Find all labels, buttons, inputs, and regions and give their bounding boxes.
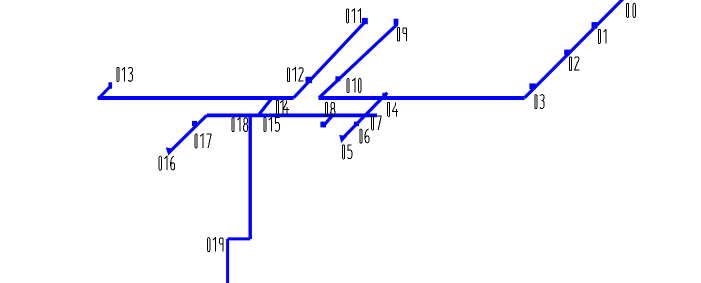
wire jog at node 19 horizontal xyxy=(228,237,251,240)
node 011 label xyxy=(347,9,361,23)
node 07 label xyxy=(372,116,382,130)
node 010 label xyxy=(347,79,361,93)
node 016 label xyxy=(159,156,175,170)
wire line 18-19 vertical xyxy=(248,115,251,239)
wire line 14-11 branch diagonal xyxy=(294,21,367,98)
node 11 marker xyxy=(362,18,368,24)
stub end marker xyxy=(320,122,326,128)
node 02 label xyxy=(570,57,580,71)
node 015 label xyxy=(264,118,280,132)
wire line 18-16 diagonal xyxy=(169,115,207,152)
wire line 18-7 horizontal (second feeder) xyxy=(207,114,377,118)
node 4 marker xyxy=(382,93,387,98)
node 01 label xyxy=(598,30,606,44)
node 05 label xyxy=(343,145,352,159)
node 06 label xyxy=(360,129,369,143)
node 12 marker xyxy=(306,77,313,83)
wire link 15-14 diagonal xyxy=(258,98,272,116)
node 03 label xyxy=(535,95,544,109)
node 08 label xyxy=(326,102,335,116)
node 04 label xyxy=(388,102,399,116)
node 012 label xyxy=(288,68,304,82)
node 09 label xyxy=(398,27,407,41)
wire line 4-5 diagonal xyxy=(342,93,388,140)
node 6 marker xyxy=(354,122,359,127)
node 13 marker xyxy=(108,82,112,88)
node 017 label xyxy=(195,134,211,148)
wire stub to node 13 xyxy=(98,86,111,99)
node 018 label xyxy=(232,118,248,132)
wire line 3-0 diagonal xyxy=(525,0,624,98)
node 2 marker xyxy=(564,50,570,56)
wire line 13-14 horizontal xyxy=(98,96,294,100)
wire line 8-3 horizontal xyxy=(319,96,525,100)
node 019 label xyxy=(208,238,223,252)
node 10 marker xyxy=(335,76,340,81)
node 9 marker xyxy=(394,19,399,25)
node 00 label xyxy=(627,4,636,18)
node 5 arrow marker xyxy=(339,135,347,143)
node 014 label xyxy=(277,100,290,114)
node 1 marker xyxy=(592,22,598,28)
node 17 marker xyxy=(192,121,197,126)
node 16 arrow marker xyxy=(166,147,173,156)
wire line 8-9 branch diagonal xyxy=(319,24,397,98)
wire stub below node 8 xyxy=(323,114,334,126)
node 3 marker xyxy=(529,83,535,89)
node 013 label xyxy=(117,67,133,81)
wire line below 19 vertical xyxy=(226,239,229,283)
